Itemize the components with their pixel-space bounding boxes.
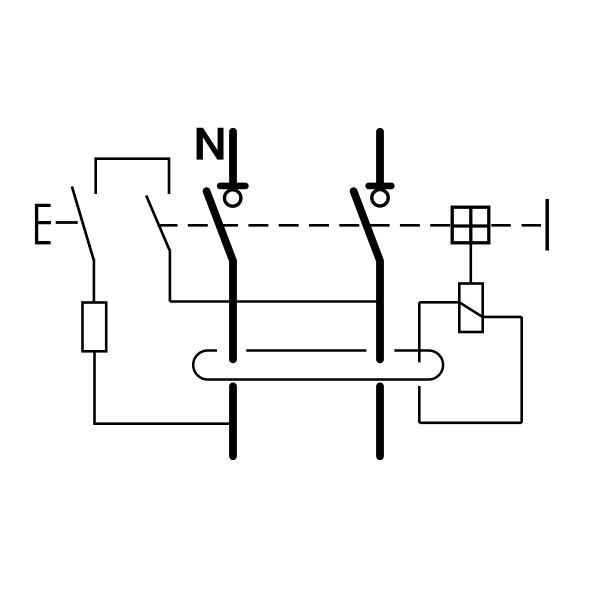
test switch blade S2 — [146, 196, 170, 251]
mechanism box cross vertical — [469, 207, 472, 243]
conductor pole 1 below toroid (thick) — [229, 386, 237, 456]
wire secondary below toroid — [418, 386, 421, 423]
terminal clamp bar pole 2 — [369, 183, 392, 190]
terminal clamp bar pole 1 — [220, 183, 245, 190]
mechanism box (crossed square) — [452, 207, 489, 243]
wire relay right — [483, 316, 522, 319]
switch blade pole 1 (thick) — [207, 191, 233, 359]
wire S2 to pole 2 — [170, 300, 378, 303]
test switch blade S1 — [72, 187, 94, 261]
wire S1 to resistor — [93, 259, 96, 302]
wire relay left down into toroid — [418, 302, 421, 362]
wire relay left — [419, 301, 459, 304]
test button link dash — [56, 221, 78, 224]
conductor pole 2 below toroid (thick) — [376, 386, 384, 456]
toroid current transformer (stadium ring) — [193, 351, 443, 380]
label N (neutral terminal) — [197, 128, 224, 160]
label E (test button) — [37, 205, 51, 242]
wire trip circuit right — [520, 317, 523, 423]
terminal lead pole 1 (thick vertical top) — [229, 132, 237, 186]
mechanical linkage dashed line (right run) — [491, 224, 545, 227]
wire bottom test circuit to pole 1 — [93, 422, 233, 425]
moving contact circle pole 1 — [225, 190, 241, 206]
trip relay diagonal — [459, 302, 482, 317]
mechanical linkage dashed line (left run) — [158, 224, 451, 227]
wire S2 down — [169, 249, 172, 302]
staple wire linking S1 and S2 terminals — [96, 159, 169, 194]
handle end bar — [545, 199, 549, 251]
resistor R (test resistor) — [83, 303, 107, 352]
moving contact circle pole 2 — [372, 190, 388, 206]
wire trip circuit bottom — [419, 421, 521, 424]
switch blade pole 2 (thick) — [354, 191, 380, 359]
wire resistor down — [93, 351, 96, 423]
terminal lead pole 2 (thick vertical top) — [376, 132, 384, 186]
trip relay (rectangle) — [459, 284, 482, 333]
mechanism box cross horizontal — [452, 224, 489, 227]
wire mechanism to trip relay — [469, 243, 472, 283]
